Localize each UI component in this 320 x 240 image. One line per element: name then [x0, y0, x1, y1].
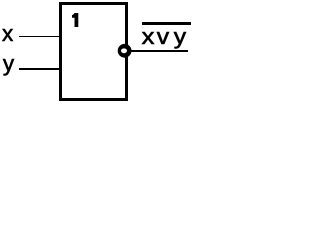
- svg-text:y: y: [3, 51, 15, 76]
- svg-text:v: v: [157, 25, 170, 50]
- svg-text:x: x: [2, 21, 14, 46]
- svg-text:x: x: [142, 25, 155, 50]
- svg-text:y: y: [174, 25, 187, 50]
